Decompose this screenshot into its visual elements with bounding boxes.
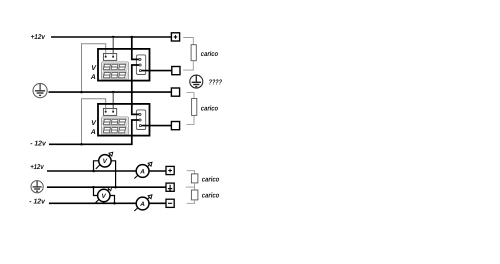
panel meter module U2: [98, 104, 150, 136]
node junction ground bus / loop1: [80, 91, 83, 94]
load resistor R4: [191, 190, 198, 200]
terminal box3 (ground): [171, 88, 179, 96]
voltmeter V2: [95, 187, 112, 204]
module1 pin 3 redraw: [139, 70, 141, 72]
terminal box + (bottom): [166, 166, 174, 174]
terminal box4 (module2 out): [171, 122, 179, 130]
module U1 digits row A: [103, 72, 125, 77]
module U1 pin 2: [139, 64, 141, 66]
node junction -12v / V2 right lead: [113, 202, 116, 205]
svg-text:V: V: [102, 193, 107, 200]
ammeter A1: [134, 162, 152, 178]
ammeter A2: [134, 195, 152, 211]
wire +12v bus: [51, 36, 171, 38]
wire module2 pin3 to terminal box4: [140, 125, 171, 127]
node junction gnd / V1 right lead: [114, 186, 117, 189]
module U2 case: [98, 104, 150, 136]
module1 pin 1 redraw: [139, 58, 141, 60]
module U2 top connector: [103, 109, 116, 116]
wire -12v bottom bus: [49, 202, 166, 204]
voltmeter V2 leads: [94, 187, 115, 203]
load resistor R1 lead top: [183, 38, 193, 45]
wire module1 pin3 to terminal box2: [140, 70, 171, 72]
svg-text:- 12v: - 12v: [29, 198, 46, 205]
svg-text:- 12v: - 12v: [30, 141, 47, 148]
wire -12v bus: [49, 143, 133, 145]
module U1 pin 3: [139, 70, 141, 72]
svg-text:????: ????: [209, 78, 223, 87]
svg-text:V: V: [91, 120, 97, 127]
voltmeter V1: [96, 152, 113, 169]
load resistor R4 lead bottom: [187, 200, 195, 203]
ground symbol left PE2: [31, 181, 43, 193]
module2 pin 2 redraw: [139, 119, 141, 121]
svg-text:+12v: +12v: [31, 34, 46, 41]
svg-text:A: A: [90, 74, 96, 81]
svg-text:carico: carico: [201, 50, 219, 58]
node junction gnd / V2 left lead: [92, 186, 95, 189]
module2 pin 3 redraw: [139, 125, 141, 127]
terminal box earth (bottom): [166, 183, 174, 191]
svg-text:+12v: +12v: [30, 164, 44, 171]
load resistor R1 lead bottom: [183, 61, 193, 70]
svg-text:carico: carico: [201, 104, 219, 112]
node junction ground bus / module2 pin wire: [112, 91, 115, 94]
module U2 display: [102, 117, 129, 134]
ground symbol left PE1: [33, 84, 47, 98]
module U2 pin 1: [139, 113, 141, 115]
load resistor R3: [191, 174, 198, 183]
wire +12v bottom bus: [47, 170, 166, 172]
module U2 digits row A: [103, 127, 125, 132]
node junction -12v / loop2: [80, 143, 83, 146]
svg-text:A: A: [90, 129, 96, 136]
load resistor R1: [191, 45, 196, 61]
wire thin loop module2 left: [82, 99, 106, 145]
svg-text:A: A: [139, 201, 145, 208]
load resistor R3 lead top: [187, 171, 195, 174]
module U1 pin 1: [139, 58, 141, 60]
terminal box + (top): [171, 33, 179, 41]
wire thin module2 right pin to ground bus: [112, 92, 114, 109]
ground symbol PE floating: [190, 75, 203, 88]
module2 pin 1 redraw: [139, 113, 141, 115]
svg-text:A: A: [139, 168, 145, 175]
svg-text:V: V: [91, 65, 97, 72]
wire C (module2 pin2 to -12v): [132, 120, 140, 144]
load resistor R3-R4 middle lead: [186, 183, 195, 190]
module U2 right connector: [136, 110, 145, 130]
load resistor R2 lead top: [187, 93, 195, 99]
wire ground bottom bus: [47, 186, 166, 188]
module1 pin 2 redraw: [139, 64, 141, 66]
module U2 pin 3: [139, 125, 141, 127]
module U1 case: [98, 49, 150, 81]
module U1 top connector: [103, 54, 116, 61]
svg-text:carico: carico: [202, 192, 220, 200]
load resistor R2: [192, 99, 197, 116]
module U1 display: [102, 62, 129, 80]
node junction +12v / thick wire A: [131, 36, 134, 39]
module U2 digits row V: [103, 119, 125, 124]
module U2 pin 2: [139, 119, 141, 121]
wire ground bus: [49, 91, 172, 93]
panel meter module U1: [98, 49, 150, 81]
node junction +12v / pin wire: [112, 36, 115, 39]
module U1 right connector: [136, 55, 145, 75]
node junction +12v / V1 left lead: [92, 170, 95, 173]
wire B (module1 pin2 to module2 pin1): [132, 65, 140, 114]
wire thin module1 right pin to +12v: [112, 37, 114, 55]
svg-text:V: V: [103, 158, 108, 165]
wire thin loop module1 left: [82, 44, 106, 92]
node junction wire B / ground bus: [131, 91, 134, 94]
load resistor R2 lead bottom: [187, 115, 195, 124]
wire A (+12v to module1 pin1): [132, 36, 140, 59]
terminal box2 (module1 out): [172, 67, 180, 75]
terminal box minus (bottom): [166, 199, 174, 207]
svg-text:carico: carico: [202, 175, 220, 183]
module U1 digits row V: [103, 64, 125, 69]
voltmeter V1 leads: [94, 161, 116, 187]
